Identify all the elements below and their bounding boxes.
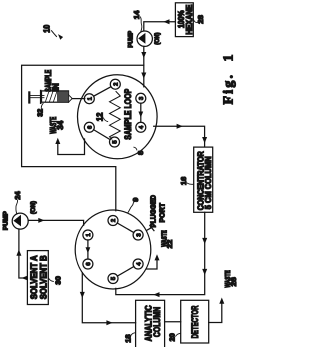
sample loop coil 12 (zigzag) [110, 92, 121, 140]
svg-text:28: 28 [196, 15, 205, 24]
svg-text:3: 3 [136, 233, 142, 237]
svg-text:PORT: PORT [158, 203, 167, 223]
arrow valve9-analytic (left) [80, 292, 85, 298]
svg-text:4: 4 [136, 262, 142, 266]
valve8 port 4 [136, 122, 146, 132]
svg-text:Fig.: Fig. [222, 73, 237, 105]
arrow valve9-analytic (down) [106, 320, 112, 325]
valve8 passage 3-4 [140, 103, 142, 122]
label 24 leader [16, 200, 18, 214]
syringe 32 plunger handle [28, 92, 30, 102]
syringe barrel [42, 91, 69, 102]
svg-text:DETECTOR: DETECTOR [190, 305, 200, 338]
wire solvent box to pump24 [19, 229, 28, 278]
svg-text:30: 30 [53, 276, 62, 285]
valve9 port 4 [133, 259, 143, 269]
arrow concentrator-valve9 (left 1) [202, 238, 207, 244]
valve8 passage 1-2 [94, 87, 111, 96]
label 20 leader [176, 333, 181, 336]
svg-text:1: 1 [86, 233, 92, 236]
valve9 port 1 [83, 230, 93, 240]
wire detector to waste 26 [209, 302, 222, 322]
svg-text:6: 6 [86, 262, 92, 266]
concentrator column box 16 [194, 147, 213, 212]
svg-text:9: 9 [131, 198, 140, 202]
wire valve8 to concentrator column [154, 126, 205, 146]
pump P24 triangle [13, 215, 21, 227]
waste 22 wire from valve9 [146, 259, 157, 269]
svg-text:(ON): (ON) [30, 201, 37, 214]
svg-text:PUMP: PUMP [127, 31, 134, 48]
arrow on pump14-valve8 wire (second) [141, 73, 146, 79]
valve9 passage 1-6 [87, 240, 89, 259]
arrow solvent-pump24 (right) [16, 250, 21, 256]
valve8 port 3 [136, 93, 146, 103]
svg-text:5 CM COLUMN: 5 CM COLUMN [204, 156, 213, 209]
svg-text:22: 22 [165, 240, 174, 249]
arrow solvent-pump24 (up) [22, 276, 28, 281]
label 30 leader [49, 278, 54, 281]
svg-text:PLUGGED: PLUGGED [149, 194, 158, 227]
svg-text:2: 2 [111, 219, 117, 222]
label 18 leader [131, 333, 135, 335]
svg-text:(ON): (ON) [154, 33, 161, 45]
syringe needle wire to valve8 port1 [72, 98, 85, 100]
wire valve9 to analytic column [82, 273, 135, 323]
svg-text:5: 5 [113, 140, 119, 144]
svg-text:14: 14 [132, 11, 141, 20]
arrow pump24-valve9 [38, 218, 44, 223]
syringe barrel flange [40, 91, 42, 104]
wire C-shape from pump14 line around to valve9 port 2 [22, 65, 144, 211]
pump P24 circle [12, 213, 28, 229]
solvent reservoir box 30 [27, 251, 48, 305]
label 8 leader [134, 147, 137, 150]
svg-text:18: 18 [123, 334, 132, 342]
valve8 port 2 [110, 79, 120, 89]
wire hexane box to pump14 [144, 22, 176, 31]
svg-text:IN: IN [52, 83, 61, 92]
svg-text:PUMP: PUMP [3, 211, 10, 230]
arrow valve9 passage 1-6 [86, 247, 91, 253]
arrow waste 22 [155, 254, 160, 260]
arrow concentrator-valve9 (left 2) [202, 269, 207, 275]
arrow valve8 passage 3-4 [138, 112, 143, 118]
svg-text:HEXANE: HEXANE [185, 4, 194, 34]
svg-text:32: 32 [36, 109, 45, 117]
arrow concentrator-valve9 (up) [153, 292, 159, 297]
arrow waste 34 [55, 138, 60, 144]
valve9 passage 4-5 [117, 267, 134, 277]
valve9 port 6 [83, 259, 93, 269]
syringe plunger tip / liquid [57, 91, 69, 101]
syringe plunger rod [30, 96, 44, 98]
waste 34 wire from valve8 [58, 139, 85, 155]
valve8 port 5 [110, 137, 120, 147]
valve V8 circle [78, 75, 158, 159]
wire pump24 to valve9 [28, 220, 83, 225]
svg-text:20: 20 [168, 333, 177, 341]
svg-text:3: 3 [139, 96, 145, 100]
wire analytic column to detector [165, 321, 181, 323]
svg-text:6: 6 [88, 125, 94, 129]
syringe barrel hatching [46, 92, 57, 102]
plugged port symbol on valve9 port 3 [147, 225, 154, 230]
pump P14 triangle [138, 33, 145, 44]
arrow valve8-concentrator (down) [177, 124, 183, 129]
arrow 10 pointer [52, 31, 57, 37]
label 14 leader [141, 17, 142, 32]
arrow on pump14-valve8 wire [141, 52, 146, 58]
label PLUGGED PORT leader [153, 225, 156, 227]
svg-text:16: 16 [179, 177, 188, 185]
arrow waste 26 [219, 298, 224, 304]
arrow valve8-concentrator (left) [202, 137, 207, 143]
label 32 leader [41, 103, 43, 108]
svg-text:8: 8 [136, 151, 145, 155]
wire pump14 to valve8 (hexane feed line) [143, 46, 145, 87]
valve9 port 5 [108, 274, 118, 284]
label 16 leader [187, 183, 194, 184]
svg-text:12: 12 [95, 112, 104, 121]
valve8 passage 5-6 [94, 130, 111, 140]
pump P14 circle [137, 31, 152, 46]
svg-text:26: 26 [229, 277, 238, 286]
label 12 leader [104, 118, 108, 122]
svg-text:SOLVENT B: SOLVENT B [38, 255, 48, 299]
hexane box 28 [175, 3, 193, 37]
valve V9 circle [75, 210, 151, 289]
detector box 20 [181, 300, 209, 343]
svg-text:5: 5 [111, 276, 117, 280]
svg-text:1: 1 [88, 97, 94, 100]
label 28 leader [194, 20, 198, 23]
svg-text:10: 10 [43, 24, 52, 32]
svg-text:2: 2 [114, 83, 120, 86]
svg-text:1: 1 [222, 55, 237, 62]
svg-text:4: 4 [139, 125, 145, 129]
svg-text:SAMPLE LOOP: SAMPLE LOOP [123, 89, 133, 140]
valve9 port 3 [133, 230, 143, 240]
valve9 port 2 [108, 216, 118, 226]
valve8 port 1 [84, 94, 94, 104]
valve8 port 6 [84, 122, 94, 132]
arrow on hexane wire [163, 19, 169, 24]
label 9 leader [128, 203, 134, 213]
valve9 passage 2-3 [117, 223, 134, 233]
syringe taper and needle [69, 95, 73, 103]
svg-text:COLUMN: COLUMN [152, 307, 162, 337]
wire concentrator to valve9 [116, 212, 205, 294]
svg-text:34: 34 [56, 120, 65, 130]
analytic column box 18 [136, 300, 165, 347]
svg-text:24: 24 [13, 191, 22, 199]
